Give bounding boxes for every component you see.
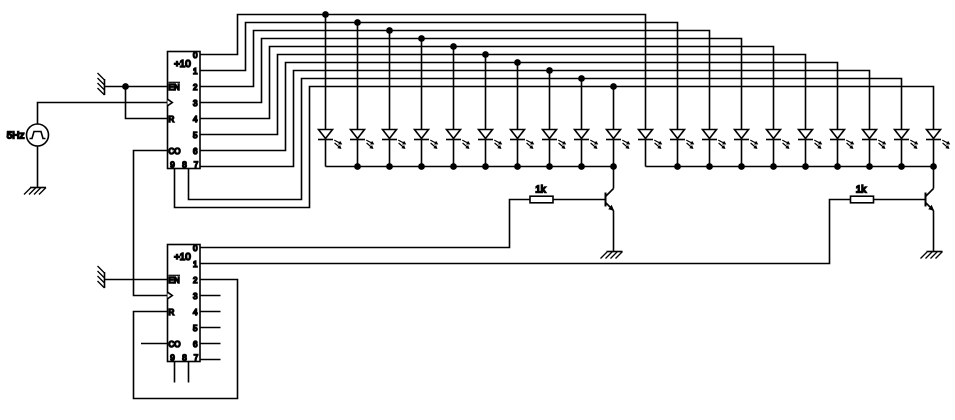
svg-text:2: 2: [193, 83, 198, 92]
svg-text:7: 7: [194, 160, 199, 169]
wire drop to LED D2: [357, 23, 359, 130]
junction dot bus2 4: [738, 163, 745, 170]
junction dot bus1 7: [514, 163, 521, 170]
wire U2 output 2 reset loop: [134, 280, 238, 399]
junction dot bus1 5: [450, 163, 457, 170]
svg-text:6: 6: [193, 340, 198, 349]
counter U1 divide-by-10: [168, 51, 201, 169]
svg-text:CO: CO: [169, 340, 181, 349]
junction dot bus1 3: [386, 163, 393, 170]
LED D1: [318, 130, 342, 167]
wire U1 output 9 net: [175, 87, 934, 208]
wire U1 output 0 net: [200, 15, 646, 130]
svg-text:EN: EN: [169, 83, 180, 92]
junction dot line 2 col 3: [386, 27, 393, 34]
junction dot bus1 6: [482, 163, 489, 170]
svg-text:0: 0: [193, 244, 198, 253]
ground at U2 EN: [98, 266, 105, 288]
wire U1 CO to U2 clock: [134, 151, 168, 296]
svg-text:6: 6: [193, 147, 198, 156]
svg-text:1k: 1k: [856, 184, 868, 195]
LED D10: [606, 130, 630, 167]
junction dot line 7 col 8: [546, 67, 553, 74]
wire drop to LED D9: [581, 79, 583, 130]
LED D20: [926, 130, 950, 167]
junction dot bus2 8: [866, 163, 873, 170]
wire U1 output 2 net: [200, 31, 710, 130]
wire Q1 emitter: [613, 211, 615, 252]
junction dot bus2 5: [770, 163, 777, 170]
wire Q2 emitter: [933, 211, 935, 252]
junction dot line 5 col 6: [482, 51, 489, 58]
transistor Q1: [606, 189, 615, 211]
svg-text:CO: CO: [169, 147, 181, 156]
LED D13: [702, 130, 726, 167]
wire cathode bus digit 2: [646, 166, 934, 168]
ground below Q2: [921, 252, 943, 259]
wire Q2 collector: [933, 167, 935, 189]
wire EN1 junction to R1 pin: [126, 87, 168, 119]
wire drop to LED D3: [389, 31, 391, 130]
svg-text:5: 5: [193, 131, 198, 140]
junction dot bus1 10: [610, 163, 617, 170]
svg-text:÷10: ÷10: [174, 252, 191, 263]
wire U1 output 3 net: [200, 39, 742, 130]
LED D15: [766, 130, 790, 167]
transistor Q2: [926, 189, 935, 211]
svg-text:R: R: [169, 115, 175, 124]
LED D12: [670, 130, 694, 167]
counter U2 divide-by-10: [168, 244, 201, 362]
svg-text:4: 4: [193, 115, 198, 124]
svg-text:2: 2: [193, 276, 198, 285]
svg-text:÷10: ÷10: [174, 59, 191, 70]
wire U2 output 1 to R2: [200, 200, 851, 264]
junction dot line 0 col 1: [322, 11, 329, 18]
svg-text:8: 8: [182, 160, 187, 169]
wire EN1 to ground: [105, 86, 168, 88]
LED D8: [542, 130, 566, 167]
wire V1 bottom: [37, 146, 39, 188]
svg-text:1k: 1k: [535, 184, 547, 195]
LED D18: [862, 130, 886, 167]
stub U2 pin 9: [174, 362, 176, 383]
LED D14: [734, 130, 758, 167]
stub U2 pin 5: [200, 327, 221, 329]
LED D17: [830, 130, 854, 167]
ground below Q1: [601, 252, 623, 259]
junction dot EN1: [122, 83, 129, 90]
svg-text:R: R: [169, 308, 175, 317]
wire U1 output 1 net: [200, 23, 678, 130]
stub U2 pin 6: [200, 343, 221, 345]
LED D6: [478, 130, 502, 167]
wire Q1 collector: [613, 167, 615, 189]
svg-text:3: 3: [193, 99, 198, 108]
svg-text:5Hz: 5Hz: [7, 130, 25, 141]
junction dot bus1 4: [418, 163, 425, 170]
wire U1 output 5 net: [200, 55, 806, 135]
junction dot bus1 2: [354, 163, 361, 170]
svg-text:1: 1: [193, 260, 198, 269]
junction dot bus2 6: [802, 163, 809, 170]
wire cathode bus digit 1: [326, 166, 614, 168]
svg-text:1: 1: [193, 67, 198, 76]
svg-text:8: 8: [182, 353, 187, 362]
stub U2 CO: [141, 343, 168, 345]
LED D16: [798, 130, 822, 167]
wire drop to LED D5: [453, 47, 455, 130]
wire drop to LED D7: [517, 63, 519, 130]
resistor R1 1k: [530, 184, 553, 203]
wire drop to LED D10: [613, 87, 615, 130]
LED D4: [414, 130, 438, 167]
stub U2 pin 7: [200, 359, 221, 361]
svg-text:3: 3: [193, 292, 198, 301]
junction dot line 8 col 9: [578, 75, 585, 82]
junction dot line 3 col 4: [418, 35, 425, 42]
LED D9: [574, 130, 598, 167]
wire drop to LED D6: [485, 55, 487, 130]
junction dot bus2 2: [674, 163, 681, 170]
wire U1 output 7 net: [200, 71, 870, 167]
wire R2 to Q2 base: [874, 199, 926, 201]
junction dot line 6 col 7: [514, 59, 521, 66]
junction dot bus2 10: [930, 163, 937, 170]
wire U2 output 0 to R1: [200, 200, 530, 248]
LED D5: [446, 130, 470, 167]
junction dot bus2 7: [834, 163, 841, 170]
LED D11: [638, 130, 662, 167]
junction dot line 9 col 10: [610, 83, 617, 90]
junction dot bus1 8: [546, 163, 553, 170]
ground at U1 EN: [98, 73, 105, 95]
stub U2 pin 3: [200, 295, 221, 297]
LED D19: [894, 130, 918, 167]
svg-text:5: 5: [193, 324, 198, 333]
wire R1 to Q1 base: [553, 199, 606, 201]
svg-text:EN: EN: [169, 276, 180, 285]
junction dot bus2 9: [898, 163, 905, 170]
junction dot bus1 9: [578, 163, 585, 170]
stub U2 pin 4: [200, 311, 221, 313]
junction dot line 1 col 2: [354, 19, 361, 26]
svg-text:0: 0: [193, 51, 198, 60]
junction dot bus2 3: [706, 163, 713, 170]
wire U1 output 8 net: [189, 79, 902, 200]
svg-text:7: 7: [194, 353, 199, 362]
wire V1 top to clock: [38, 103, 168, 125]
wire drop to LED D1: [325, 15, 327, 130]
LED D3: [382, 130, 406, 167]
wire drop to LED D8: [549, 71, 551, 130]
svg-text:9: 9: [170, 353, 175, 362]
stub U2 pin 8: [188, 362, 190, 383]
wire EN2 to ground: [105, 279, 168, 281]
svg-text:9: 9: [170, 160, 175, 169]
LED D2: [350, 130, 374, 167]
svg-text:4: 4: [193, 308, 198, 317]
LED D7: [510, 130, 534, 167]
wire U1 output 4 net: [200, 47, 774, 130]
wire U1 output 6 net: [200, 63, 838, 151]
ground below V1: [24, 188, 46, 195]
resistor R2 1k: [851, 184, 874, 203]
pulse source V1 5Hz: [7, 124, 49, 146]
junction dot line 4 col 5: [450, 43, 457, 50]
wire drop to LED D4: [421, 39, 423, 130]
